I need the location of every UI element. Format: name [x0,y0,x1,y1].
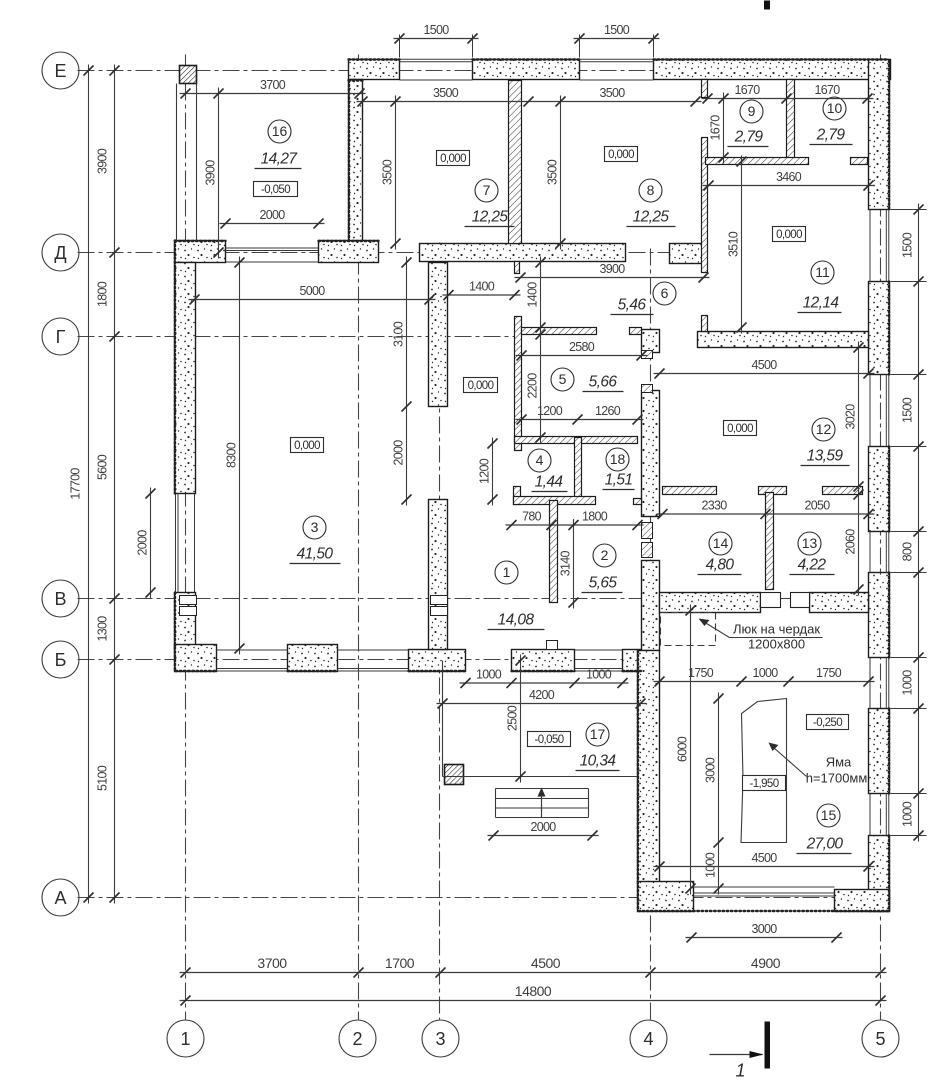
niche detail wall room1 west [431,596,448,605]
svg-text:17: 17 [590,726,606,742]
svg-text:1000: 1000 [752,666,778,680]
right wall bottom segment [869,836,890,912]
svg-text:6: 6 [661,285,669,301]
window bottom wall 1500 east [338,668,409,670]
porch steps [496,788,589,818]
svg-text:5,46: 5,46 [618,297,647,314]
garage gate 3000 [694,886,835,888]
svg-text:1: 1 [735,1061,745,1081]
svg-text:2000: 2000 [136,530,150,556]
top wall segment middle [473,60,580,80]
svg-text:12,25: 12,25 [633,209,670,226]
axis circle D [42,234,79,271]
svg-text:1500: 1500 [901,397,915,423]
svg-text:h=1700мм: h=1700мм [806,771,868,786]
wall room5-2 east middle [642,391,660,517]
svg-text:Яма: Яма [826,755,852,770]
dims 3000 1000 pit vertical [704,693,724,895]
axis D horizontal [78,252,708,254]
right wall segment 3 [869,447,890,532]
svg-text:-0,050: -0,050 [534,734,563,746]
room 8 label [627,179,676,227]
svg-text:5: 5 [559,371,567,387]
svg-text:1200: 1200 [478,458,492,484]
right wall segment 5 [869,709,890,794]
svg-text:1800: 1800 [96,281,110,307]
svg-text:3: 3 [435,1029,445,1049]
svg-text:1500: 1500 [901,232,915,258]
svg-text:3: 3 [311,519,319,535]
right dimension chain [901,204,924,842]
dim 1400 hall [443,280,521,301]
axis circle 5 [862,1020,899,1057]
dim 8300 room 3 vertical [225,257,245,655]
svg-text:Г: Г [56,327,66,347]
dim 3500 room 8 vertical [546,96,566,250]
svg-text:1400: 1400 [469,280,495,294]
dims 3100 2000 wall vertical [392,257,412,506]
wall D under rooms 7-8 [420,244,626,262]
room 3 label [290,516,341,564]
svg-text:4500: 4500 [751,851,777,865]
svg-text:4900: 4900 [751,955,781,971]
svg-text:2000: 2000 [392,440,406,466]
terrace west edge lines [176,84,178,241]
partition rooms 4-18 [575,438,582,501]
wall room2 east lower [642,561,660,651]
door jambs wall V garage door [761,593,781,608]
svg-text:Д: Д [54,243,66,263]
svg-text:3900: 3900 [599,262,625,276]
insulation dotted edge left wall [174,241,176,494]
svg-text:7: 7 [483,182,491,198]
dims 2330 2050 rooms 14-13 [657,499,875,520]
level box room 16 [254,182,298,197]
partition under rooms 9-10 [706,158,809,165]
svg-text:2330: 2330 [701,499,727,513]
room 1 label [488,561,545,630]
partition rooms 14-13 [766,493,774,590]
right wall segment 4 [869,573,890,658]
dim 2000 left window vertical [136,488,156,599]
axis circle V [42,580,79,617]
right chain extension lines [891,209,927,211]
svg-text:14800: 14800 [515,983,552,999]
left wall lower segment [175,593,196,650]
svg-text:0,000: 0,000 [727,423,753,435]
svg-text:2060: 2060 [844,529,858,555]
svg-text:1300: 1300 [96,616,110,642]
svg-text:4: 4 [536,452,544,468]
svg-text:1: 1 [180,1029,190,1049]
partition room 4 south [514,497,596,505]
bottom wall B pier 4 [512,650,575,672]
svg-text:0,000: 0,000 [776,229,802,241]
bottom wall B pier 2 [288,645,338,672]
top window dim 1500 east [574,23,660,44]
svg-text:0,000: 0,000 [468,380,494,392]
axis E horizontal [78,70,891,72]
dim 3900 room 16 vertical [204,88,224,259]
dim 4500 garage [654,851,875,872]
svg-text:А: А [54,888,66,908]
svg-text:-0,250: -0,250 [813,717,842,729]
insulation dotted edge garage bottom [639,910,889,912]
svg-text:2200: 2200 [526,373,540,399]
room 10 label [810,97,853,145]
dim 3510 room 11 vertical [727,156,747,334]
bottom wall B pier 1 [175,645,217,672]
dim 2060 rooms 14-13 vertical [844,489,864,596]
svg-text:4: 4 [643,1029,653,1049]
window garage right 1000 lower [885,794,887,836]
room 16 label [255,120,302,169]
room 17 boundary lines [442,661,444,777]
axis circle 1 [167,1020,204,1057]
level box room 12 [724,421,757,436]
section mark top [764,1,770,10]
left dimension chain [96,65,120,904]
partition under room 10 stub [851,158,868,165]
svg-text:4200: 4200 [529,688,555,702]
svg-text:1000: 1000 [586,668,612,682]
svg-text:3460: 3460 [776,170,802,184]
partition hall 1-2 [550,501,558,603]
room 6 label [611,282,677,315]
dims 1000 bottom wall doors [460,668,629,689]
svg-text:2500: 2500 [506,705,520,731]
svg-text:3510: 3510 [727,231,741,257]
svg-text:1200: 1200 [537,404,563,418]
dim 3500 room 7 vertical [381,96,401,250]
svg-text:5,65: 5,65 [589,575,618,592]
axis circle A [42,879,79,916]
svg-text:3100: 3100 [392,321,406,347]
dim 5000 room 3 [189,284,436,305]
window right wall 800 [885,532,887,573]
dim 3700 room 16 [180,78,366,99]
room 2 label [582,544,623,593]
svg-text:780: 780 [522,510,542,524]
svg-text:-1,950: -1,950 [749,778,778,790]
dim 2000 porch [488,820,599,841]
window left wall 2000 [175,494,177,593]
room 5 label [551,368,624,392]
bottom overall dimension 14800 [180,983,887,1006]
wall V west part [660,593,761,613]
svg-text:1670: 1670 [814,83,840,97]
room 11 label [798,261,842,313]
svg-text:1750: 1750 [816,666,842,680]
svg-text:27,00: 27,00 [806,836,844,853]
bottom wall B pier 5 [623,650,642,672]
level box garage [807,715,849,730]
partition room 11 west [702,138,708,273]
dims 3500 rooms 7-8 [357,86,702,107]
bottom dimension chain [180,955,887,978]
svg-text:2,79: 2,79 [734,129,764,146]
pit outline [741,699,787,843]
wall D T-pier [319,241,379,263]
svg-text:10: 10 [827,100,843,116]
svg-text:4500: 4500 [531,955,561,971]
wall D west pier [175,241,226,263]
level box room 8 [605,147,638,162]
axis 1 vertical [185,55,187,1020]
svg-text:2000: 2000 [259,208,285,222]
svg-text:1,51: 1,51 [605,472,633,489]
svg-text:800: 800 [901,542,915,562]
svg-text:9: 9 [748,103,756,119]
svg-text:1,44: 1,44 [535,474,564,491]
partition rooms 12-13 east [823,487,863,495]
insulation dotted edge garage west [637,651,639,911]
room 7 label [465,179,515,227]
svg-text:1500: 1500 [604,23,630,37]
insulation dotted edge right wall [888,61,890,210]
svg-text:14: 14 [713,535,729,551]
dim 1400 room 5 offset vertical [526,257,546,334]
svg-text:3020: 3020 [844,404,858,430]
door jambs east wall room 2 [642,523,653,539]
dim 3460 room 11 [703,170,875,191]
top wall segment east [654,60,891,80]
svg-text:2: 2 [601,547,609,563]
niche detail left wall near V [180,596,197,605]
axis 4 vertical [650,249,652,1020]
dim 2200 room 5 vertical [526,329,546,444]
left overall dimension 17700 [69,65,94,904]
room 17 label [576,723,620,771]
svg-text:3500: 3500 [381,159,395,185]
axis circle 2 [339,1020,376,1057]
dims 1200 1260 rooms 4-18 [516,404,644,425]
window bottom wall 1500 west [217,668,288,670]
svg-text:5000: 5000 [299,284,325,298]
window top wall 1500 east [580,58,654,60]
svg-text:Е: Е [54,61,66,81]
top dim extension lines [399,35,401,58]
garage west wall lower [638,651,660,884]
svg-text:0,000: 0,000 [608,149,634,161]
svg-text:3700: 3700 [257,955,287,971]
partition rooms 7-8 [509,81,522,244]
partition rooms 12-14 middle [759,487,787,495]
svg-text:6000: 6000 [676,736,690,762]
level box hall 1 [464,378,498,393]
svg-text:11: 11 [815,264,830,280]
svg-text:0,000: 0,000 [440,153,466,165]
svg-text:3500: 3500 [546,159,560,185]
dim 2000 terrace window [220,208,325,229]
svg-text:3000: 3000 [751,922,777,936]
window top wall 1500 west [400,58,473,60]
wall D east pier [670,244,707,264]
room 13 label [790,532,835,575]
pit label [769,743,868,786]
partition rooms 9-10 [787,80,795,165]
svg-text:2: 2 [352,1029,362,1049]
room 16 east wall [349,80,363,243]
partition rooms 5-4-18 [515,437,638,444]
svg-text:3700: 3700 [260,78,286,92]
wall room5 east upper [642,330,660,353]
axis B horizontal [78,659,659,661]
axis V horizontal [78,598,891,600]
right wall segment 2 [869,282,890,375]
svg-text:-0,050: -0,050 [261,184,290,196]
section mark bottom [710,1022,771,1081]
svg-text:18: 18 [610,451,626,467]
svg-text:1: 1 [503,564,511,580]
insulation dotted edge room16 wall [349,79,363,81]
dim 3020 room 12 vertical [844,342,864,493]
svg-text:1200х800: 1200х800 [748,637,805,652]
dim 1200 room 4 door vertical [478,438,498,506]
svg-text:1260: 1260 [595,404,621,418]
window right wall 1500 upper [885,210,887,282]
top window dim 1500 west [394,23,479,44]
svg-text:4500: 4500 [751,358,777,372]
svg-text:1670: 1670 [734,83,760,97]
level box room 11 [773,227,806,242]
room 18 label [603,448,635,490]
svg-text:1000: 1000 [901,670,915,696]
dims 780 1800 hall [506,510,644,531]
svg-text:3000: 3000 [704,757,718,783]
dim 1670 room 9 vertical [709,93,729,164]
level box pit [743,776,786,791]
axis 5 vertical [880,55,882,1020]
svg-text:2000: 2000 [530,820,556,834]
svg-text:1000: 1000 [901,801,915,827]
column near porch [445,765,464,785]
wall between room 3 and hall lower [429,500,448,650]
axis circle 4 [630,1020,667,1057]
svg-text:3500: 3500 [599,86,625,100]
svg-text:12,25: 12,25 [472,209,509,226]
svg-text:0,000: 0,000 [294,440,320,452]
wall under room 11 [698,332,869,348]
garage bottom wall west [638,882,694,912]
partition room 5 north [522,328,597,335]
wall between room 3 and hall upper [429,263,448,407]
svg-text:15: 15 [821,807,837,823]
svg-text:12,14: 12,14 [803,295,840,312]
dim 3140 hall vertical [559,519,579,609]
partition room 18 south stub [634,499,642,505]
partition room 9 west upper [702,80,708,98]
level box room 3 [291,438,324,453]
axis A horizontal [78,897,891,899]
insulation dotted edge bottom wall [176,670,217,672]
detail on bottom wall near room 1 [547,641,558,650]
svg-text:8300: 8300 [225,442,239,468]
svg-text:5600: 5600 [96,454,110,480]
svg-text:13,59: 13,59 [807,448,844,465]
dims pit top garage [654,666,875,687]
svg-text:17700: 17700 [69,468,83,500]
svg-text:5,66: 5,66 [589,374,618,391]
partition room 11 west stub [702,316,708,332]
dims 1670 rooms 9-10 [702,83,874,104]
svg-text:3900: 3900 [96,148,110,174]
room 4 label [528,449,568,492]
svg-text:1400: 1400 [526,282,540,308]
svg-text:1800: 1800 [582,510,608,524]
insulation dotted edge top wall [349,58,400,60]
svg-text:10,34: 10,34 [580,753,617,770]
svg-text:2050: 2050 [804,499,830,513]
axis circle 3 [422,1020,459,1057]
svg-text:5: 5 [875,1029,885,1049]
window bottom wall 1000 [575,668,623,670]
svg-text:1000: 1000 [704,852,718,878]
svg-text:3500: 3500 [433,86,459,100]
room 12 label [801,418,850,466]
garage bottom wall east [835,890,890,912]
window garage right 1000 upper [885,658,887,709]
door jambs east wall room 6-12 [642,351,653,359]
partition room 5 west [515,317,522,451]
svg-text:13: 13 [802,535,818,551]
axis 2 vertical [358,55,360,1020]
right wall upper segment [869,60,890,210]
svg-text:Люк на чердак: Люк на чердак [733,622,820,637]
axis G horizontal [78,336,518,338]
partition rooms 12-14 west [663,487,717,495]
axis circle G [42,318,79,355]
svg-text:14,27: 14,27 [261,151,299,168]
svg-text:2580: 2580 [569,340,595,354]
svg-text:1000: 1000 [476,668,502,682]
left wall upper segment [175,263,196,494]
axis circle E [42,52,79,89]
svg-text:12: 12 [816,421,832,437]
dim 2580 room 5 [516,340,648,361]
wall V east part [810,593,869,613]
svg-text:2,79: 2,79 [816,127,846,144]
attic hatch dashed rectangle [661,613,716,646]
dim 3000 garage gate [686,922,843,943]
dim 3900 hall 6 [515,262,710,283]
window right wall 1500 lower [885,375,887,447]
window wall D 2000 terrace [226,247,319,249]
svg-text:3140: 3140 [559,551,573,577]
dim 6000 garage vertical [676,605,696,895]
svg-text:16: 16 [272,123,288,139]
bottom wall B pier 3 [409,650,466,672]
dim 2500 room 17 vertical [506,655,526,783]
svg-text:41,50: 41,50 [297,546,334,563]
axis 3 vertical [439,243,441,1020]
column at axis 1/E [180,66,197,84]
svg-text:1700: 1700 [385,955,415,971]
svg-text:1670: 1670 [709,115,723,141]
dim 4500 room 12 [654,358,875,379]
svg-text:В: В [54,589,66,609]
dim 4200 room 17 [437,688,647,709]
svg-text:1750: 1750 [688,666,714,680]
attic hatch label [699,619,823,652]
partition room 4 west lower [514,487,521,505]
room 14 label [698,532,742,575]
svg-text:4,22: 4,22 [798,557,827,574]
svg-text:14,08: 14,08 [498,612,535,629]
level box room 17 [528,732,571,747]
svg-text:3900: 3900 [204,160,218,186]
svg-text:5100: 5100 [96,765,110,791]
